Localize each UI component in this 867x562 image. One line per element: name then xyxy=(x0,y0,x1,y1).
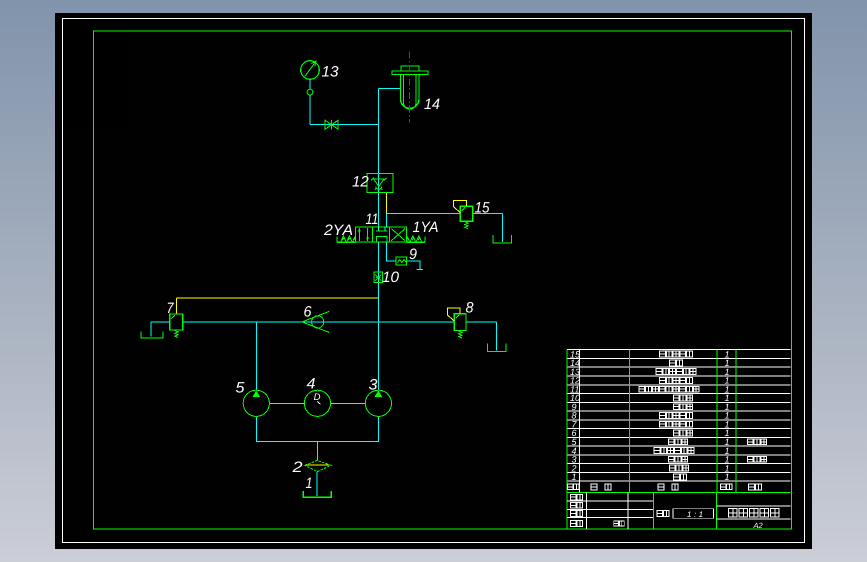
svg-text:2: 2 xyxy=(291,459,303,476)
svg-text:13: 13 xyxy=(322,64,340,81)
tank under valve 15 xyxy=(493,235,512,243)
tank 1 xyxy=(303,491,331,497)
wire suction manifold xyxy=(256,416,379,460)
callout labels xyxy=(167,64,491,493)
solenoid 2YA symbol xyxy=(337,236,355,243)
svg-text:5: 5 xyxy=(236,380,246,397)
relief valve 8 xyxy=(454,314,466,338)
title block left labels xyxy=(570,494,624,526)
wire gauge branch horizontal xyxy=(310,124,378,126)
wire gauge stem lower xyxy=(309,95,311,125)
title block grid xyxy=(567,493,790,530)
wire junction down into valve 11 xyxy=(386,213,388,227)
relief valve 7 xyxy=(170,314,183,337)
svg-text:11: 11 xyxy=(366,211,379,228)
pilot line to valve 7 xyxy=(176,298,378,314)
svg-text:12: 12 xyxy=(352,174,369,191)
svg-text:1: 1 xyxy=(725,472,730,482)
wire orifice 9 outlet xyxy=(407,261,423,270)
svg-text:2YA: 2YA xyxy=(323,222,353,239)
pilot hook of valve 15 xyxy=(454,200,467,212)
pump 3 xyxy=(365,390,391,416)
inner white frame xyxy=(63,19,805,543)
sheet size A2 xyxy=(753,521,764,530)
wire main horizontal pump line xyxy=(151,321,497,323)
accumulator/plug 14 xyxy=(392,66,428,109)
filter 2 xyxy=(305,460,331,471)
wire main vertical top xyxy=(377,88,379,227)
directional valve 11 body xyxy=(355,227,406,242)
solenoid 1YA symbol xyxy=(407,236,426,243)
relief valve 15 xyxy=(460,206,473,228)
svg-text:3: 3 xyxy=(369,377,379,394)
orifice 10 xyxy=(374,272,382,283)
wire pump 5 riser xyxy=(255,322,257,390)
pilot operated valve 12 xyxy=(367,174,393,193)
wire to accumulator 14 xyxy=(378,87,401,89)
wire pump 5 to motor 4 xyxy=(269,402,304,404)
svg-text:10: 10 xyxy=(382,269,400,286)
wire into tank of valve 7 xyxy=(150,322,152,337)
valve 11 left position arrows xyxy=(358,228,369,241)
parts list table grid xyxy=(567,350,790,530)
shutoff valve on gauge line xyxy=(325,120,338,130)
pilot hook of valve 8 xyxy=(448,308,460,321)
table header row xyxy=(567,484,761,490)
svg-text:9: 9 xyxy=(409,246,418,263)
valve 11 right position cross xyxy=(391,229,405,241)
wire valve 15 drain down to tank xyxy=(502,213,504,242)
svg-text:1YA: 1YA xyxy=(413,219,439,236)
pilot line from valve 12 down xyxy=(386,193,388,214)
green drawing border xyxy=(94,31,792,529)
tank under valve 7 xyxy=(141,332,163,338)
svg-text:8: 8 xyxy=(466,300,475,317)
svg-text:A2: A2 xyxy=(753,521,764,530)
motor 4 xyxy=(304,390,330,416)
wire gauge stem upper xyxy=(309,79,311,89)
svg-text:1: 1 xyxy=(306,475,313,492)
svg-text:1:1: 1:1 xyxy=(687,510,706,519)
svg-text:15: 15 xyxy=(475,200,491,217)
wire pilot junction horizontal to valve 15 xyxy=(387,212,503,214)
svg-text:7: 7 xyxy=(167,300,175,317)
valve 11 centre position xyxy=(376,227,387,242)
svg-text:6: 6 xyxy=(304,304,313,321)
scale cell xyxy=(657,509,714,519)
wire main vertical bottom xyxy=(377,243,379,391)
wire motor 4 to pump 3 xyxy=(331,402,366,404)
svg-text:1: 1 xyxy=(572,472,577,482)
wire filter 2 to tank 1 xyxy=(316,472,318,497)
pump 5 xyxy=(243,390,269,416)
pressure gauge 13 xyxy=(301,61,320,95)
svg-text:4: 4 xyxy=(307,376,316,393)
tank under valve 8 xyxy=(487,344,506,352)
wire into tank of valve 8 xyxy=(496,322,498,351)
centerline of 14 xyxy=(408,51,410,122)
drawing title xyxy=(729,509,779,517)
check valve 6 xyxy=(302,311,329,332)
svg-text:14: 14 xyxy=(424,96,440,113)
parts list rows xyxy=(570,349,730,482)
wire valve 11 to orifice 9 xyxy=(387,243,396,261)
orifice 9 xyxy=(396,257,407,265)
